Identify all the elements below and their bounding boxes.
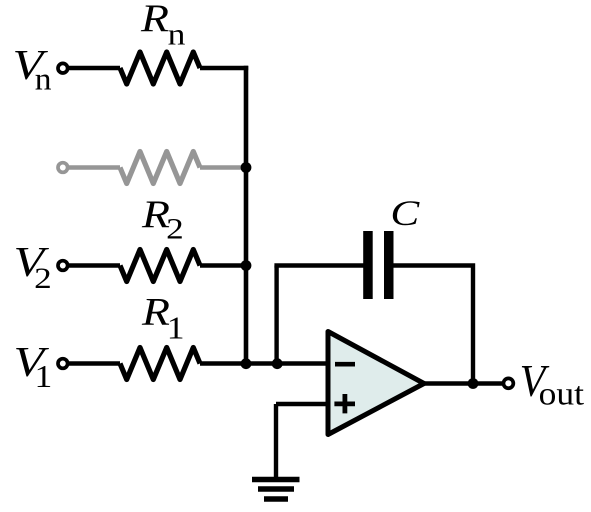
junction output-feedback <box>468 378 479 389</box>
wire V1 input <box>68 361 120 365</box>
terminal gray <box>58 163 68 173</box>
wire noninverting input <box>276 404 328 478</box>
terminal Vn <box>58 63 68 73</box>
svg-text:n: n <box>35 62 52 97</box>
wire output <box>420 381 502 385</box>
wire V2 input <box>68 263 120 267</box>
svg-text:C: C <box>390 192 420 233</box>
svg-text:2: 2 <box>166 213 184 246</box>
svg-text:R: R <box>140 0 169 40</box>
resistor R2 <box>120 250 200 282</box>
op-amp U1 triangle <box>328 332 424 435</box>
op-amp plus sign <box>334 394 355 413</box>
op-amp minus sign <box>335 362 355 367</box>
wire R1 to op-amp <box>200 361 328 365</box>
bus vertical wire <box>244 66 249 364</box>
ground <box>252 480 300 500</box>
svg-text:1: 1 <box>35 360 53 395</box>
wire gray to bus <box>200 165 246 169</box>
junction bus-gray <box>241 162 252 173</box>
svg-text:R: R <box>141 291 170 334</box>
terminal V2 <box>58 261 68 271</box>
wire capacitor to output <box>393 266 475 384</box>
junction bus-R2 <box>241 260 252 271</box>
wire feedback vertical left <box>274 266 278 364</box>
svg-text:2: 2 <box>34 262 52 295</box>
svg-text:out: out <box>539 377 585 412</box>
wire R2 to bus <box>200 263 246 267</box>
capacitor C right plate <box>384 231 394 299</box>
junction feedback node <box>272 358 283 369</box>
resistor R1 <box>120 348 200 380</box>
wire to capacitor left <box>274 263 363 267</box>
wire Vn input <box>68 66 120 70</box>
svg-text:1: 1 <box>167 311 185 346</box>
capacitor C left plate <box>363 231 373 299</box>
junction bus-R1 <box>241 358 252 369</box>
wire Rn to bus <box>200 66 248 70</box>
terminal Vout <box>503 378 513 388</box>
wire gray input <box>69 165 120 169</box>
svg-text:n: n <box>168 17 186 51</box>
resistor Rn <box>120 52 200 84</box>
resistor gray (ellipsis input) <box>120 152 200 184</box>
terminal V1 <box>58 359 68 369</box>
